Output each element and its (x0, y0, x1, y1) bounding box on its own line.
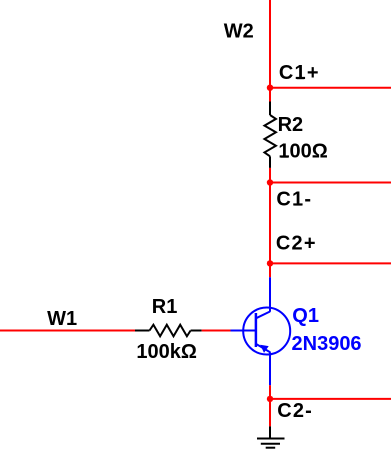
svg-text:Q1: Q1 (292, 305, 319, 327)
svg-text:R2: R2 (278, 114, 304, 136)
svg-text:100kΩ: 100kΩ (136, 341, 197, 363)
svg-text:2N3906: 2N3906 (292, 333, 362, 355)
svg-text:C1-: C1- (276, 189, 312, 211)
svg-text:C2+: C2+ (276, 233, 317, 255)
svg-text:W1: W1 (47, 308, 77, 330)
svg-text:W2: W2 (224, 21, 254, 43)
svg-text:C1+: C1+ (279, 62, 320, 84)
svg-text:100Ω: 100Ω (278, 141, 327, 163)
svg-text:C2-: C2- (277, 400, 313, 422)
svg-text:R1: R1 (152, 296, 178, 318)
